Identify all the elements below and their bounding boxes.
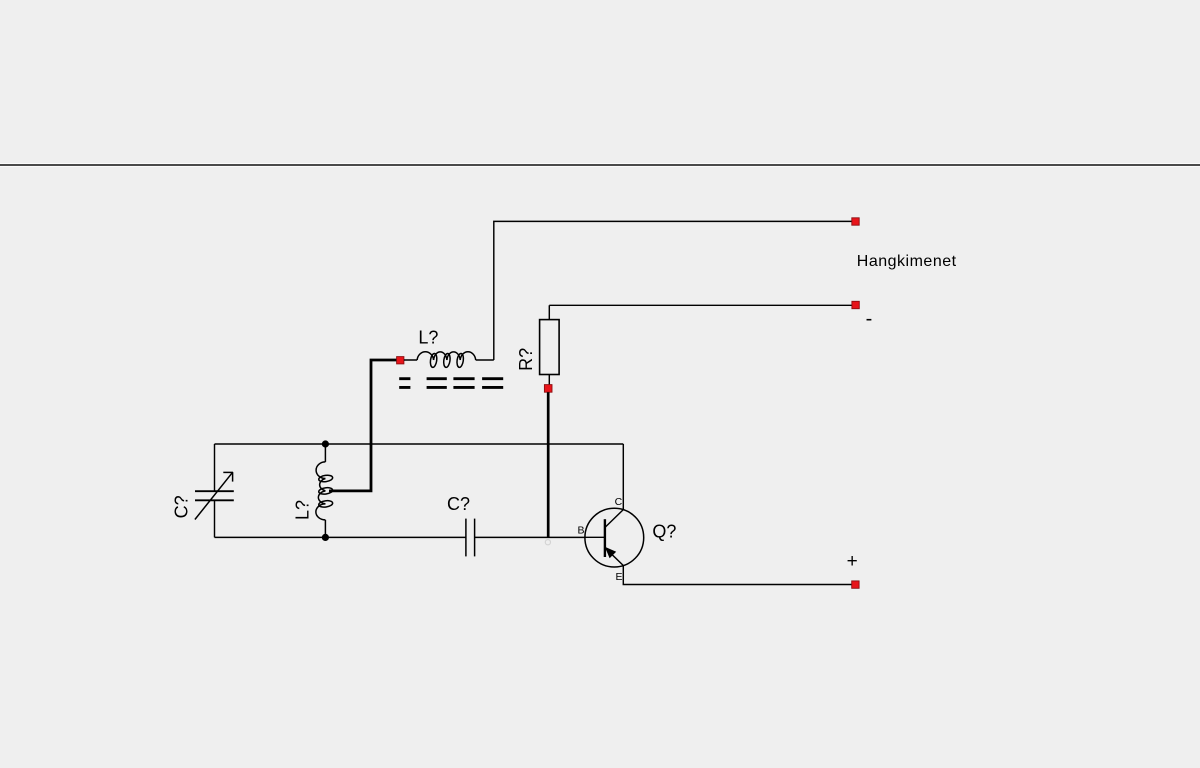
capacitor C? (coupling) — [466, 519, 475, 557]
svg-text:L?: L? — [293, 500, 313, 520]
svg-text:+: + — [847, 551, 858, 572]
port red square (plus) — [852, 581, 859, 588]
inductor L? (horizontal, with core) — [404, 352, 494, 368]
resistor R? — [540, 305, 560, 384]
variable capacitor C? — [195, 444, 234, 537]
core lines (iron core dashes) — [399, 379, 503, 388]
port red square (top output) — [852, 218, 859, 225]
svg-text:L?: L? — [418, 327, 438, 347]
ghost junction at base node — [545, 540, 550, 545]
svg-text:Q?: Q? — [652, 522, 676, 542]
wire: tank bottom rail left — [215, 536, 466, 538]
wire: tank top rail — [215, 443, 624, 445]
svg-text:R?: R? — [516, 348, 536, 371]
wire: collector to rail — [622, 444, 624, 510]
pin red square (L? left pin) — [397, 357, 404, 364]
port red square (minus) — [852, 301, 859, 308]
junction dot bottom — [322, 534, 329, 541]
transistor Q? (PNP) — [585, 508, 644, 567]
wire: L? to top output port — [494, 221, 852, 360]
junction dot top — [322, 440, 329, 447]
svg-text:C?: C? — [172, 495, 192, 518]
wire: tank bottom rail right to base — [475, 536, 585, 538]
svg-text:C?: C? — [447, 494, 470, 514]
svg-text:-: - — [866, 308, 873, 330]
svg-text:B: B — [577, 525, 584, 537]
svg-text:E: E — [615, 571, 622, 583]
wire: R? bottom to base node (thick) — [547, 392, 550, 537]
wire: coil tap to L? (thick) — [329, 360, 397, 491]
inductor L? (vertical tapped coil) — [316, 444, 333, 537]
pin red square (R? bottom pin) — [544, 385, 552, 393]
wire: R? top to minus port — [549, 304, 852, 306]
wire: emitter to plus port — [623, 566, 851, 585]
svg-text:C: C — [615, 496, 623, 508]
svg-text:Hangkimenet: Hangkimenet — [857, 253, 957, 270]
